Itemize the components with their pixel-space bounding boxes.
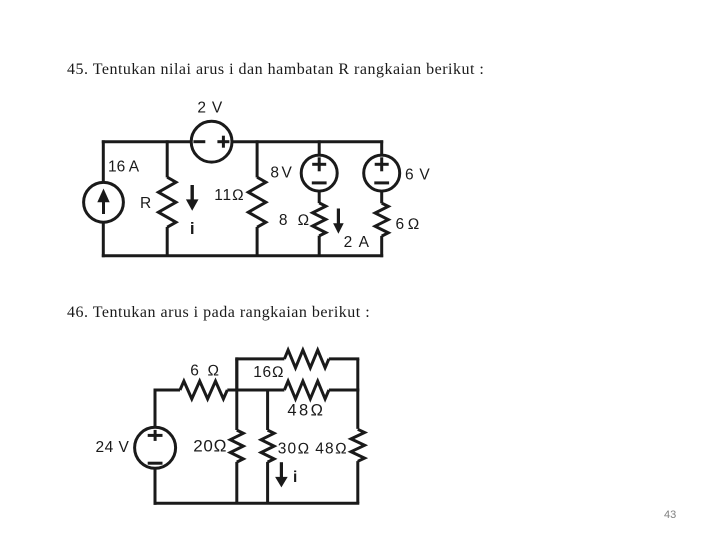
- resistor 20 ohm: [230, 430, 243, 462]
- resistor 8 ohm: [313, 203, 326, 236]
- wire main rail right segment: [329, 389, 359, 392]
- current arrow 2A: [333, 209, 344, 234]
- wire 20-ohm branch lower: [235, 462, 238, 503]
- svg-text:24 V: 24 V: [96, 439, 130, 456]
- svg-text:i: i: [293, 469, 297, 486]
- wire 11-ohm branch bottom: [256, 227, 259, 256]
- wire 6V to 6-ohm: [380, 191, 383, 203]
- svg-text:30Ω: 30Ω: [278, 441, 311, 458]
- wire top rail left segment (circuit 45): [102, 140, 192, 143]
- wire bottom rail (circuit 46): [154, 502, 360, 505]
- svg-text:i: i: [190, 219, 195, 238]
- svg-text:20Ω: 20Ω: [193, 437, 227, 456]
- wire 30-ohm branch lower: [266, 462, 269, 503]
- resistor 48 ohm vertical: [351, 429, 365, 461]
- wire left branch top: [102, 140, 105, 182]
- wire right branch bottom (circuit 46): [356, 461, 359, 503]
- svg-text:2 A: 2 A: [344, 234, 371, 251]
- wire 6-ohm branch bottom: [380, 236, 383, 257]
- svg-text:6 Ω: 6 Ω: [190, 363, 221, 380]
- wire top rail (circuit 46): [235, 357, 284, 360]
- resistor R: [158, 177, 176, 227]
- resistor 11 ohm: [248, 177, 266, 227]
- current arrow i (circuit 46): [275, 462, 288, 487]
- problem 46 statement: [67, 304, 370, 322]
- current source 16 A: [84, 182, 124, 222]
- wire resistor R branch top: [166, 140, 169, 177]
- resistor 6 ohm: [375, 203, 388, 236]
- wire left branch top (circuit 46): [154, 390, 157, 427]
- voltage source 2V: [191, 121, 232, 162]
- problem 45 statement: [67, 61, 484, 79]
- svg-text:16Ω: 16Ω: [253, 364, 284, 381]
- svg-text:48Ω: 48Ω: [287, 401, 325, 419]
- svg-text:6Ω: 6Ω: [396, 216, 423, 233]
- resistor 30 ohm: [261, 430, 274, 462]
- svg-text:8 Ω: 8 Ω: [279, 212, 312, 229]
- wire 11-ohm branch top: [256, 140, 259, 177]
- wire main rail left segment (circuit 46): [154, 389, 181, 392]
- resistor 16 ohm: [284, 350, 329, 368]
- wire 20-ohm branch upper: [235, 359, 238, 430]
- wire left branch bottom: [102, 222, 105, 257]
- svg-text:48Ω: 48Ω: [315, 441, 348, 458]
- svg-text:11Ω: 11Ω: [214, 187, 244, 204]
- svg-text:R: R: [140, 195, 151, 212]
- wire 8-ohm branch bottom: [318, 236, 321, 256]
- current arrow i (circuit 45): [186, 185, 199, 211]
- svg-text:8 V: 8 V: [270, 165, 292, 182]
- wire 8V to 8-ohm: [318, 191, 321, 203]
- svg-text:2 V: 2 V: [197, 100, 223, 117]
- voltage source 6V: [364, 155, 400, 191]
- wire left branch bottom (circuit 46): [154, 468, 157, 505]
- page number 43: [664, 509, 676, 521]
- svg-text:16 A: 16 A: [108, 159, 140, 176]
- wire right branch top (circuit 46): [356, 359, 359, 429]
- voltage source 8V: [301, 155, 337, 191]
- wire top rail right segment (circuit 45): [232, 140, 383, 143]
- wire 30-ohm branch upper: [266, 390, 269, 430]
- voltage source 24V: [135, 427, 176, 468]
- resistor 6 ohm horizontal: [180, 381, 227, 399]
- wire resistor R branch bottom: [166, 227, 169, 256]
- wire top rail left stub (circuit 46): [235, 357, 238, 390]
- svg-text:6 V: 6 V: [405, 167, 430, 184]
- wire top rail right segment (circuit 46): [329, 357, 359, 360]
- wire main rail middle segment: [227, 389, 284, 392]
- wire bottom rail (circuit 45): [102, 254, 383, 257]
- wire 8V branch top stub: [318, 140, 321, 155]
- wire 6V branch top stub: [380, 140, 383, 155]
- resistor 48 ohm horizontal: [284, 381, 329, 399]
